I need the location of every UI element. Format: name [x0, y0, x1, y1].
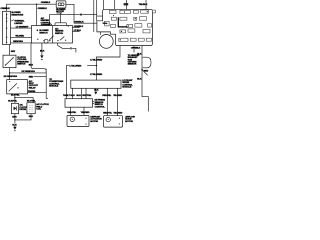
svg-text:RED: RED — [144, 71, 149, 73]
wire RED/ORG — [11, 42, 32, 44]
blower motor M1 — [56, 1, 66, 8]
ground wire to PCM bracket BLK — [29, 43, 46, 73]
svg-text:YEL/RED: YEL/RED — [113, 113, 122, 115]
wire ORN into panel — [126, 0, 128, 9]
wire LT GRN/WHT — [11, 27, 32, 29]
label right of motor 1 — [90, 116, 102, 122]
svg-text:SWITCH: SWITCH — [17, 64, 26, 66]
svg-text:LT BLU/RED: LT BLU/RED — [90, 74, 102, 76]
label A/C CLUTCH DIODE — [19, 104, 28, 111]
fuse row D — [120, 29, 150, 33]
bracket to PCM — [46, 69, 48, 99]
wire vertical x114.7 into panel — [114, 0, 116, 9]
svg-text:CONTROL: CONTROL — [95, 106, 106, 108]
stubs below relay box — [71, 107, 85, 115]
stubs below module — [73, 88, 118, 115]
blower relay box — [65, 99, 93, 108]
wire left drop to control box — [48, 15, 50, 26]
ground from control box — [40, 43, 45, 59]
wire top feed ORN/BLK horizontal — [7, 3, 57, 11]
svg-text:LT BLU/RED: LT BLU/RED — [69, 65, 81, 67]
svg-text:RED/YEL: RED/YEL — [67, 112, 77, 114]
svg-text:RELAY: RELAY — [29, 86, 36, 89]
label A/C CLUTCH FIELD COIL — [36, 103, 49, 110]
switch contact on right run — [141, 69, 148, 75]
connector capsule — [143, 57, 151, 68]
label TO POWERTRAIN CONTROL MODULE — [49, 79, 63, 88]
svg-text:YEL/BLK: YEL/BLK — [139, 4, 148, 6]
svg-text:LT GRN/WHT: LT GRN/WHT — [16, 26, 29, 28]
svg-text:BLK/YEL: BLK/YEL — [8, 100, 17, 102]
ground chain below clutch — [12, 114, 33, 131]
label TO HEATED circuit note — [128, 54, 140, 66]
fuse row A — [110, 10, 156, 14]
clutch cycling pressure switch — [3, 45, 16, 68]
A/C clutch diode D1 — [11, 103, 18, 113]
svg-text:BLK: BLK — [137, 79, 142, 81]
front wiper module box — [71, 80, 121, 88]
svg-text:ORN/BLK: ORN/BLK — [41, 2, 51, 4]
svg-text:RED: RED — [29, 77, 34, 79]
fuse row B — [111, 15, 146, 20]
fuse panel FP — [97, 9, 152, 45]
svg-text:BLK: BLK — [137, 54, 142, 56]
ignition switch circle — [99, 35, 113, 49]
svg-text:YEL/RED: YEL/RED — [113, 95, 122, 97]
blower resistor block R — [3, 11, 11, 44]
svg-text:BLK: BLK — [29, 116, 34, 118]
svg-text:BLU: BLU — [77, 95, 82, 97]
label CLUTCH CYCLING PRESSURE SWITCH — [17, 57, 29, 66]
svg-text:LT BLU: LT BLU — [74, 30, 82, 32]
svg-text:BLK: BLK — [94, 90, 99, 92]
svg-text:SENSOR: SENSOR — [128, 64, 137, 66]
servo motor box 1 — [67, 115, 89, 126]
svg-text:DK GRN/ORG: DK GRN/ORG — [22, 71, 36, 73]
wire YEL/RED — [11, 36, 32, 38]
svg-text:ORN/BLK: ORN/BLK — [38, 8, 48, 10]
svg-text:MODULE: MODULE — [122, 87, 132, 89]
wire DK GRN/ORG junction — [9, 68, 46, 80]
label right of motor 2 — [125, 116, 136, 123]
svg-text:MODULE: MODULE — [49, 86, 59, 88]
svg-text:WHT/YEL: WHT/YEL — [82, 95, 92, 97]
A/C clutch field coil L1 — [27, 103, 35, 114]
wire motor label to hood — [60, 13, 62, 23]
fuse row C — [105, 21, 152, 27]
svg-text:SWITCH: SWITCH — [55, 33, 64, 35]
wire horizontal y14.4 — [49, 14, 79, 16]
wire vertical x103.6 from top — [97, 0, 104, 16]
wire tick LT BLU/RED — [87, 65, 97, 67]
wire vertical x93.8 from top — [93, 0, 95, 32]
svg-text:ORN/BLK: ORN/BLK — [131, 47, 141, 49]
svg-text:BLK/YEL: BLK/YEL — [11, 95, 20, 97]
wire PNK/BL to PCM — [28, 91, 47, 93]
switch feed wire S-bend — [58, 43, 76, 53]
label BLOWER MOTOR — [56, 9, 66, 13]
svg-text:ORN/BLK: ORN/BLK — [74, 26, 84, 28]
svg-text:RED/YEL: RED/YEL — [103, 113, 113, 115]
wire LT BLU/RED to relay box — [67, 65, 70, 98]
svg-text:LT BLU/RED: LT BLU/RED — [90, 59, 102, 61]
svg-text:YEL/RED: YEL/RED — [81, 112, 90, 114]
svg-text:COIL: COIL — [36, 109, 42, 111]
svg-text:YEL/RED: YEL/RED — [15, 36, 24, 38]
wires control box right edge — [73, 27, 80, 29]
label ORN dark tag — [124, 3, 129, 5]
svg-text:PNK/BL: PNK/BL — [28, 91, 36, 93]
svg-text:MOTOR: MOTOR — [90, 121, 98, 123]
svg-text:BLK/YEL: BLK/YEL — [27, 100, 36, 102]
wire ORN/BLK to fuse panel — [74, 22, 103, 24]
vacuum hood over switch — [55, 23, 66, 26]
wire motor to ORN/BLK vertical — [66, 4, 74, 23]
stub labels — [63, 90, 99, 97]
label A/C HEATER CONTROL ASSEMBLY — [41, 17, 53, 27]
svg-text:DK GRN/ORG: DK GRN/ORG — [4, 76, 18, 78]
wire right run with connector — [142, 46, 148, 112]
svg-text:GRY: GRY — [11, 51, 16, 53]
svg-text:SWITCH: SWITCH — [39, 32, 48, 34]
wire panel bottom exit — [133, 46, 135, 53]
bold circuit path in panel — [103, 17, 128, 27]
wire RED to PCM — [34, 76, 47, 78]
wire YEL/BLK into panel — [145, 0, 147, 9]
svg-text:ORN/BLK: ORN/BLK — [74, 22, 84, 24]
label right of module — [122, 80, 133, 89]
svg-text:RESISTORS: RESISTORS — [11, 14, 23, 16]
A/C heater control assembly box S1 — [32, 26, 73, 44]
svg-text:ORN/BLK: ORN/BLK — [0, 8, 10, 10]
servo motor box 2 — [104, 116, 123, 127]
wire panel bottom to LT BLU/RED — [96, 46, 120, 81]
svg-text:BLK: BLK — [40, 50, 45, 52]
svg-text:MOTOR: MOTOR — [125, 121, 133, 123]
label THERMAL LIMITER — [11, 20, 25, 25]
wire vertical x96.7 from top — [96, 0, 98, 21]
label right of relay box — [95, 100, 106, 109]
svg-text:LIMITER: LIMITER — [14, 23, 23, 25]
wire relay to clutch components — [11, 94, 33, 103]
wire branch down to control assembly — [36, 4, 38, 28]
svg-text:TAN/LT BLU: TAN/LT BLU — [63, 94, 75, 97]
A/C WOT cut-out relay K1 — [7, 80, 28, 94]
wire relay block to circle — [100, 32, 102, 35]
svg-text:DIODE: DIODE — [19, 109, 26, 111]
svg-text:RED/ORG: RED/ORG — [13, 41, 23, 43]
fuse row E — [119, 38, 152, 41]
label BLOWER RESISTORS — [11, 12, 23, 16]
label A/C WOT CUT-OUT RELAY — [29, 80, 39, 90]
svg-text:BLK: BLK — [12, 116, 17, 118]
svg-text:RED/YEL: RED/YEL — [102, 95, 112, 97]
